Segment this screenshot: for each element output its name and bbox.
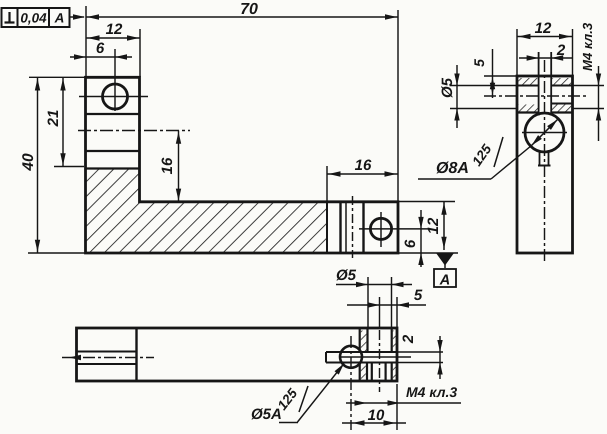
side view ext y108.5 right xyxy=(573,108,605,110)
projection line x379.5 xyxy=(379,297,381,328)
right end hole vertical centerline xyxy=(380,212,382,247)
projection line x397 xyxy=(396,297,398,328)
bottom view left block edge x136.5 xyxy=(135,328,137,381)
svg-text:70: 70 xyxy=(240,1,258,18)
right end groove line x346 xyxy=(345,202,347,253)
svg-text:2: 2 xyxy=(400,334,417,344)
dim 21 xyxy=(45,77,66,166)
bottom view thread line x371.8 lower xyxy=(371,363,373,381)
side view big hole circle xyxy=(525,113,564,152)
side view ext y76 left xyxy=(484,75,517,77)
bottom view slot centerline xyxy=(340,356,411,358)
bottom view left slot line y364 xyxy=(77,363,137,365)
right end centerline x352.5 xyxy=(352,196,354,258)
dim 70 xyxy=(86,1,398,20)
side view band bottom line left cell xyxy=(517,111,539,113)
bottom edge extension right (datum line) xyxy=(398,252,458,254)
bottom view groove x359.7 lower xyxy=(359,363,361,381)
svg-text:M4 кл.3: M4 кл.3 xyxy=(580,22,595,71)
svg-text:A: A xyxy=(439,273,450,289)
dim 21 extension bottom xyxy=(54,166,84,168)
hatch main L-section xyxy=(86,169,328,254)
dim 12 side xyxy=(517,20,573,39)
roughness 125 bottom xyxy=(275,385,308,412)
bottom view slot lower line xyxy=(326,362,397,364)
vertical arm inner line y114 xyxy=(86,113,140,115)
svg-text:5: 5 xyxy=(414,287,423,304)
dim M4 right side xyxy=(596,66,601,141)
dim 16 right horizontal xyxy=(327,157,398,177)
roughness 125 side xyxy=(469,137,503,169)
side view hole centerline xyxy=(484,95,588,97)
side view hatch band lower right xyxy=(551,105,571,113)
FCF leader xyxy=(70,16,85,18)
dim 10 xyxy=(342,407,406,426)
svg-text:40: 40 xyxy=(20,153,37,172)
leader to Ø8A xyxy=(491,146,532,180)
side view band bottom line right cell xyxy=(551,111,572,113)
side view slot left line xyxy=(538,52,540,116)
upper hole vertical centerline xyxy=(114,49,116,111)
vertical arm inner line y168.5 xyxy=(86,167,140,169)
right end hole circle xyxy=(370,218,391,239)
dim 12 extension right xyxy=(139,29,141,77)
dim 6 right xyxy=(402,210,424,267)
bottom view left slot line y351.5 xyxy=(77,351,137,353)
bottom view slot left cap xyxy=(325,352,327,363)
dim 2 side view xyxy=(519,42,572,61)
svg-text:Ø5: Ø5 xyxy=(439,77,456,98)
svg-text:21: 21 xyxy=(45,110,62,128)
bottom view slot upper line xyxy=(326,351,397,353)
dim 16 middle vertical xyxy=(159,131,181,202)
svg-text:0,04: 0,04 xyxy=(20,11,47,26)
side view outline xyxy=(517,76,573,253)
bottom view groove x391.7 upper xyxy=(391,329,393,352)
label M4 kl.3 bottom xyxy=(346,384,461,406)
side view slot right line xyxy=(550,52,552,116)
side view big hole horizontal centerline xyxy=(522,132,567,134)
dim 70 extension left xyxy=(85,6,87,77)
svg-text:Ø8A: Ø8A xyxy=(436,160,469,177)
projection line x368 xyxy=(367,277,369,328)
dash-dot extension line y130.5 xyxy=(78,130,190,132)
side view narrow slot below circle xyxy=(539,150,541,166)
dim 16 right extension left xyxy=(326,166,328,202)
dim Ø5 side xyxy=(439,65,460,128)
dim 40 xyxy=(20,77,40,253)
vertical arm inner line y151 xyxy=(86,150,140,152)
dim 12 side ext left xyxy=(516,29,518,76)
bottom view slot ext right y362.5 xyxy=(397,362,443,364)
svg-text:12: 12 xyxy=(106,21,123,38)
dim 10 extension right xyxy=(396,384,398,430)
side view ext y85.5 left xyxy=(450,85,517,87)
bottom view groove x391.7 lower xyxy=(391,363,393,381)
dim 40 extension top xyxy=(29,76,85,78)
side view hole line y85.5 left cell xyxy=(517,85,539,87)
dim 12 top xyxy=(86,21,140,41)
side view line y103.5 right cell xyxy=(551,103,572,105)
label Ø5A bottom xyxy=(251,362,346,423)
svg-text:12: 12 xyxy=(535,20,552,37)
dim 5 below main view xyxy=(347,287,426,308)
FCF perpendicularity frame xyxy=(2,8,70,27)
datum A frame xyxy=(434,269,456,287)
bottom view groove x359.7 upper xyxy=(359,329,361,352)
svg-text:16: 16 xyxy=(355,157,372,174)
diameter arrow line in circle xyxy=(532,120,558,146)
svg-text:16: 16 xyxy=(159,157,176,174)
right end groove line x327 xyxy=(326,202,328,253)
dim 12 side ext right xyxy=(572,29,574,76)
dim 6 top xyxy=(70,40,132,60)
right end groove line x363.5 xyxy=(362,202,364,253)
svg-text:Ø5: Ø5 xyxy=(336,267,357,284)
datum A stem xyxy=(444,253,446,268)
svg-text:Ø5A: Ø5A xyxy=(251,406,282,423)
right end groove line x340.5 xyxy=(339,202,341,253)
bottom view hole vertical centerline xyxy=(350,336,352,430)
side view hatch band upper left xyxy=(519,78,539,85)
bottom view groove x367.5 upper xyxy=(366,329,368,352)
side view ext y85.5 right xyxy=(573,85,605,87)
svg-text:12: 12 xyxy=(425,217,442,234)
projection line x391.5 xyxy=(391,277,393,328)
svg-text:5: 5 xyxy=(471,59,487,67)
outline main view xyxy=(86,77,399,253)
bottom view outline xyxy=(77,328,398,381)
dim Ø5 below main view xyxy=(336,267,412,287)
side view vertical centerline xyxy=(544,60,546,263)
bottom view slot ext right y352 xyxy=(397,351,443,353)
upper hole circle xyxy=(103,84,128,109)
upper hole horizontal centerline xyxy=(79,96,148,98)
dim 5 side xyxy=(471,49,495,98)
datum A triangle xyxy=(436,253,454,266)
side view hatch band lower left xyxy=(519,105,539,113)
right end hole horizontal centerline / ext xyxy=(359,228,430,230)
dim 2 bottom view xyxy=(400,334,443,379)
dim 12 right xyxy=(425,202,447,251)
dim 70/16 extension right (part right edge extended up) xyxy=(397,10,399,202)
bottom view thread line x385.6 lower xyxy=(385,363,387,381)
bottom view left centerline xyxy=(62,357,154,359)
side view hatch band upper right xyxy=(551,78,571,85)
hatch bottom view right end xyxy=(361,331,367,352)
svg-text:10: 10 xyxy=(368,407,385,424)
dim 12 right extension top xyxy=(398,201,455,203)
svg-text:6: 6 xyxy=(96,40,105,57)
svg-text:M4 кл.3: M4 кл.3 xyxy=(406,384,457,400)
bottom view groove x367 lower xyxy=(366,363,368,381)
bottom view vertical centerline x379 xyxy=(379,330,381,392)
bottom view left centerline arrow xyxy=(69,355,81,360)
side view hole line y85.5 right cell xyxy=(551,85,572,87)
svg-text:6: 6 xyxy=(402,239,419,248)
side view ext y108.5 left xyxy=(450,108,517,110)
svg-text:2: 2 xyxy=(556,42,566,59)
dim 40 extension bottom xyxy=(28,252,85,254)
bottom view hole circle xyxy=(340,346,362,368)
svg-text:A: A xyxy=(54,11,65,26)
